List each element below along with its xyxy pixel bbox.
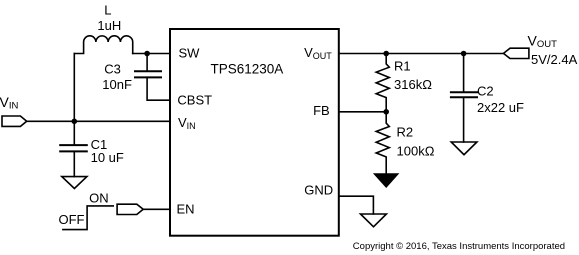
svg-text:TPS61230A: TPS61230A [211,62,284,77]
svg-text:FB: FB [313,103,330,118]
svg-text:C3: C3 [104,62,121,77]
wire EN tag to IC EN pin [143,208,170,210]
svg-text:EN: EN [177,202,195,217]
ground (C2) [451,142,477,155]
wire C1 bottom lead [73,152,75,176]
svg-text:100kΩ: 100kΩ [397,144,435,159]
node FB junction [383,109,389,115]
node SW/C3 junction [144,51,150,57]
capacitor C3 [135,71,161,77]
svg-text:SW: SW [179,46,201,61]
wire C3 top lead [146,54,148,71]
svg-text:CBST: CBST [177,93,212,108]
svg-text:10 uF: 10 uF [91,150,124,165]
wire GND: IC GND pin to ground [339,196,374,214]
wire FB net: IC FB pin to R1/R2 [339,111,386,113]
capacitor C2 [451,92,477,97]
ground (C1) [62,177,87,189]
svg-text:ON: ON [89,190,109,205]
svg-text:OFF: OFF [59,212,85,227]
svg-text:10nF: 10nF [102,77,132,92]
input port EN tag [117,204,143,214]
power ground (R2, filled) [375,174,398,187]
svg-text:GND: GND [304,182,333,197]
svg-text:5V/2.4A: 5V/2.4A [531,52,578,67]
input port VIN tag [2,116,27,126]
node R1 top junction [383,51,389,57]
resistor R2 [376,112,389,174]
resistor R1 [376,54,389,112]
svg-text:L: L [104,3,111,18]
wire VIN vertical: inductor left to C1 [73,54,75,145]
wire C3 bottom to CBST pin [147,78,170,100]
wire VIN net: input tag to IC VIN pin [27,120,170,122]
wire C2 top lead [463,54,465,92]
svg-text:C2: C2 [477,84,494,99]
svg-text:R2: R2 [397,125,414,140]
capacitor C1 [60,145,87,151]
svg-text:2x22 uF: 2x22 uF [477,100,524,115]
node VIN junction [72,119,78,125]
wire SW net: inductor to IC SW pin [133,53,170,55]
ON/OFF waveform [63,206,113,230]
output port VOUT tag [504,48,529,58]
wire C2 bottom lead [463,98,465,142]
svg-text:1uH: 1uH [97,18,121,33]
inductor L [74,36,132,54]
wire VOUT net: IC VOUT pin to output tag [339,53,504,55]
svg-text:316kΩ: 316kΩ [394,77,432,92]
svg-text:R1: R1 [394,59,411,74]
ground (GND pin) [361,214,387,227]
node C2 top junction [461,51,467,57]
op-amp U1 TPS61230A box [170,29,339,236]
svg-text:Copyright © 2016, Texas Instru: Copyright © 2016, Texas Instruments Inco… [353,241,565,252]
